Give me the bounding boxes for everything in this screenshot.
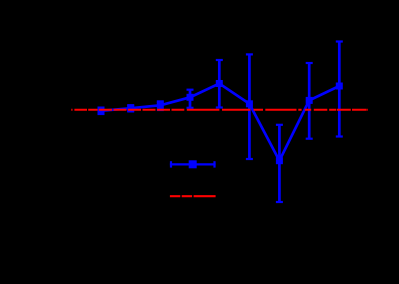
square markers	[98, 80, 343, 164]
errorbar pt5	[216, 60, 223, 108]
errorbar pt9	[336, 42, 343, 137]
data line	[101, 84, 339, 161]
legend: red dashed sample	[170, 195, 216, 197]
errorbar pt2	[127, 105, 134, 111]
legend: blue errorbar sample	[170, 161, 216, 167]
errorbar pt4	[187, 90, 194, 108]
data series (blue)	[101, 84, 339, 161]
errorbar pt8	[306, 63, 313, 139]
errorbar pt6	[246, 54, 253, 159]
errorbar pt1	[98, 108, 105, 114]
reference line (red dashed axhline)	[71, 109, 368, 111]
errorbar pt3	[157, 101, 164, 110]
errorbar pt7	[276, 125, 283, 202]
